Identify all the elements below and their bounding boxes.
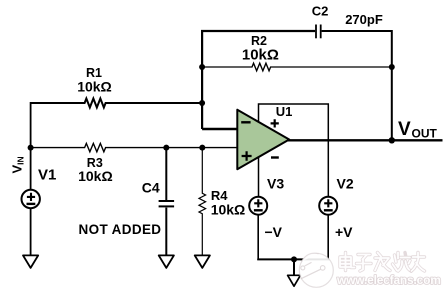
resistor R4 [199, 148, 206, 256]
wire: C2 right segment and output-node vertical [322, 31, 392, 140]
wire: inverting node vertical with C2 top-left segment [202, 31, 315, 129]
watermark chinese character 2 [357, 255, 372, 272]
source V2 [319, 197, 337, 215]
supply box U1 outline [259, 104, 329, 197]
junction dot: R2 left node [199, 64, 205, 70]
svg-text:10kΩ: 10kΩ [77, 79, 112, 95]
svg-text:C2: C2 [312, 4, 329, 19]
svg-text:10kΩ: 10kΩ [242, 46, 279, 63]
watermark chinese character 5 [412, 253, 425, 272]
wire: V1 node vertical (R1 corner down to V1) [30, 102, 32, 190]
junction dot: supply common ground tap [291, 256, 297, 262]
watermark chinese character 4 [393, 253, 412, 272]
svg-text:+V: +V [335, 224, 353, 240]
svg-text:NOT ADDED: NOT ADDED [79, 222, 162, 237]
wire: supply common rail [258, 258, 328, 261]
junction dot: input node at R3 [28, 145, 34, 151]
svg-text:270pF: 270pF [345, 12, 383, 27]
svg-text:www.elecfans.com: www.elecfans.com [336, 273, 441, 287]
ground below C4 [159, 255, 174, 268]
junction dot: R1 right node [199, 100, 205, 106]
svg-text:C4: C4 [142, 180, 160, 196]
op-amp internal minus (bottom) [271, 156, 279, 158]
ground below supplies [288, 275, 301, 286]
op-amp internal plus (top) [271, 119, 279, 127]
wire: output [288, 139, 443, 141]
junction dot: R4 tap [199, 145, 205, 151]
watermark chinese character 3 [375, 253, 390, 271]
svg-text:V3: V3 [267, 175, 284, 191]
wire: V1 to ground [30, 208, 32, 255]
wire: ground stub [293, 259, 295, 275]
wire: C4 bottom lead [165, 208, 167, 256]
source V1 [22, 190, 40, 208]
junction dot: R2 right node [389, 64, 395, 70]
junction dot: output node [389, 137, 395, 143]
wire: V2 to supply common [327, 215, 329, 260]
svg-text:10kΩ: 10kΩ [211, 202, 246, 218]
svg-text:V1: V1 [38, 167, 56, 184]
svg-text:V2: V2 [337, 175, 354, 191]
label VIN (rotated) [9, 156, 25, 173]
capacitor C4 [159, 201, 175, 206]
resistor R1 [31, 99, 203, 108]
svg-text:U1: U1 [276, 104, 293, 119]
wire: C4 top lead [165, 148, 167, 201]
op-amp noninverting input symbol (plus) [242, 151, 252, 161]
capacitor C2 [316, 25, 321, 39]
source V3 [249, 197, 267, 215]
wire: V3 to supply common [257, 215, 259, 260]
ground below R4 [195, 255, 210, 268]
svg-text:10kΩ: 10kΩ [78, 168, 113, 184]
watermark chinese character 1 [340, 253, 355, 271]
svg-text:−V: −V [265, 224, 283, 240]
wire: inverting input [202, 128, 237, 130]
op-amp inverting input symbol (minus) [241, 121, 250, 123]
op-amp U1 triangle [237, 110, 289, 170]
resistor R2 [202, 63, 392, 71]
junction dot: C4 tap [163, 145, 169, 151]
watermark logo circle [299, 253, 333, 287]
ground below V1 [23, 255, 38, 268]
resistor R3 (with noninverting input wire) [31, 143, 238, 151]
